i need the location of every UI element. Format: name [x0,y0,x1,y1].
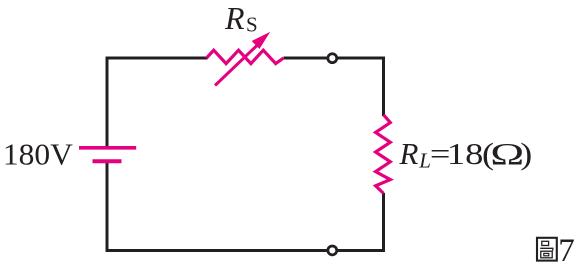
wire left vertical lower (battery to corner) [106,161,109,252]
svg-text:Ω: Ω [490,136,524,171]
wire bottom-left horizontal [106,249,327,252]
svg-text:R: R [399,136,419,171]
wire bottom-right horizontal [338,249,385,252]
resistor RS arrowhead [252,32,271,49]
wire top-right (terminal to corner) [338,57,385,60]
hanzi tu bottom inner box [544,253,549,255]
hanzi tu inner top box [542,241,549,245]
wire top-left horizontal [106,57,208,60]
svg-text:): ) [520,136,532,171]
terminal bottom (open circle) [328,246,337,255]
svg-text:S: S [246,13,258,37]
svg-text:18: 18 [447,136,484,171]
hanzi tu top-right stroke [540,248,553,250]
svg-text:180V: 180V [3,136,74,171]
svg-text:R: R [224,0,245,36]
figure caption hanzi tu: outer box [537,238,557,261]
resistor RS zigzag [207,50,284,63]
svg-text:7: 7 [558,233,575,269]
wire right vertical lower (RL to corner) [382,193,385,252]
resistor RS arrow shaft [215,44,259,86]
resistor RL zigzag [376,115,391,194]
battery V1 long plate [79,146,136,150]
wire right vertical upper (corner to RL) [382,57,385,117]
hanzi tu bottom outer box [541,251,552,258]
wire left vertical upper (corner to battery) [106,57,109,147]
terminal top (open circle) [328,54,337,63]
battery V1 short plate [93,159,122,163]
wire top-middle (Rs to top terminal) [284,57,327,60]
